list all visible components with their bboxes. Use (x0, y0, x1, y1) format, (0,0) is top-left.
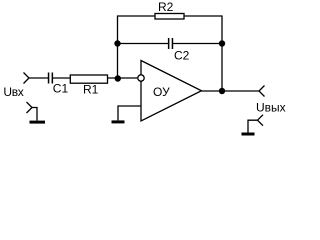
svg-text:C1: C1 (53, 82, 69, 96)
svg-text:ОУ: ОУ (153, 85, 170, 99)
svg-text:R1: R1 (83, 83, 99, 97)
svg-text:R2: R2 (158, 0, 174, 14)
svg-text:Uвых: Uвых (256, 101, 286, 115)
svg-text:C2: C2 (174, 49, 190, 63)
svg-text:Uвх: Uвх (3, 85, 23, 99)
